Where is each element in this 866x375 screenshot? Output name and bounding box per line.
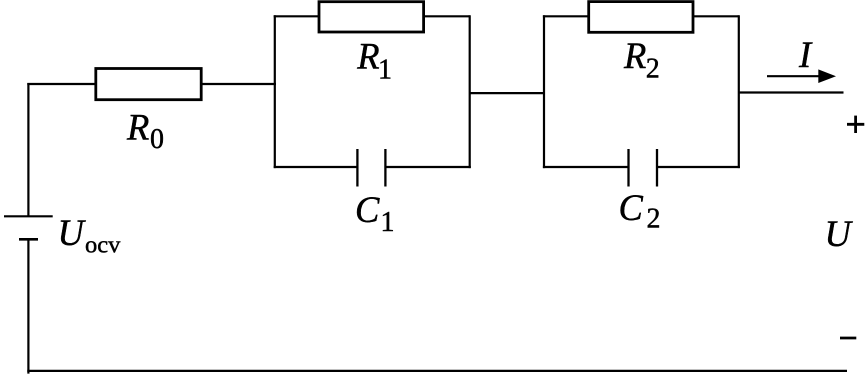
- svg-text:2: 2: [647, 204, 661, 235]
- wire: between R1C1 loop and R2C2 loop: [470, 92, 545, 94]
- svg-text:R: R: [623, 35, 646, 76]
- svg-text:C: C: [619, 187, 644, 228]
- svg-text:2: 2: [646, 54, 660, 85]
- wire: R1C1 loop left vertical: [274, 15, 276, 168]
- svg-text:U: U: [58, 212, 87, 253]
- wire: top-left horizontal from corner to R0 left lead: [27, 83, 94, 85]
- terminal +: positive terminal mark: [847, 116, 864, 133]
- wire: left vertical from battery bottom plate to bottom rail: [27, 240, 29, 374]
- svg-text:0: 0: [150, 124, 164, 155]
- wire: output lead to positive terminal: [739, 91, 844, 93]
- wire: bottom rail to negative terminal: [27, 370, 847, 372]
- resistor R0 (box): [96, 69, 201, 100]
- wire: from R0 right lead to R1C1 loop left vertical: [203, 83, 277, 85]
- resistor R2 (box): [589, 2, 693, 33]
- terminal -: negative terminal mark: [840, 337, 856, 340]
- wire: R2C2 loop bottom left segment to C2 left plate: [543, 166, 629, 168]
- svg-text:R: R: [126, 106, 149, 147]
- svg-text:U: U: [825, 213, 854, 254]
- label U (terminal voltage): [825, 213, 854, 254]
- svg-text:I: I: [798, 34, 813, 75]
- label R0: [126, 106, 164, 155]
- label C1: [355, 189, 395, 238]
- resistor R1 (box): [319, 2, 424, 32]
- wire: R1C1 loop bottom right segment from C1 right plate: [385, 166, 470, 168]
- svg-text:1: 1: [381, 207, 395, 238]
- label C2: [619, 187, 661, 235]
- current arrow I: [767, 69, 836, 83]
- svg-text:ocv: ocv: [85, 232, 121, 259]
- wire: R2C2 loop top (to R2 box): [543, 15, 739, 17]
- voltage source U_ocv (battery cell): [4, 216, 53, 239]
- label I: [798, 34, 813, 75]
- wire: R1C1 loop bottom left segment to C1 left plate: [274, 166, 358, 168]
- label R2: [623, 35, 660, 85]
- wire: left vertical from top-left corner down to battery top plate: [27, 83, 29, 216]
- wire: R1C1 loop top (to R1 box): [274, 15, 470, 17]
- capacitor C2 (plates): [629, 149, 658, 187]
- wire: R1C1 loop right vertical: [469, 15, 471, 168]
- svg-text:R: R: [356, 36, 379, 77]
- svg-text:C: C: [355, 189, 380, 230]
- wire: R2C2 loop left vertical: [543, 15, 545, 168]
- wire: R2C2 loop bottom right segment from C2 right plate: [657, 166, 740, 168]
- capacitor C1 (plates): [357, 149, 385, 187]
- svg-text:1: 1: [378, 55, 392, 86]
- label U_ocv: [58, 212, 122, 259]
- label R1: [356, 36, 392, 86]
- wire: R2C2 loop right vertical: [738, 15, 740, 168]
